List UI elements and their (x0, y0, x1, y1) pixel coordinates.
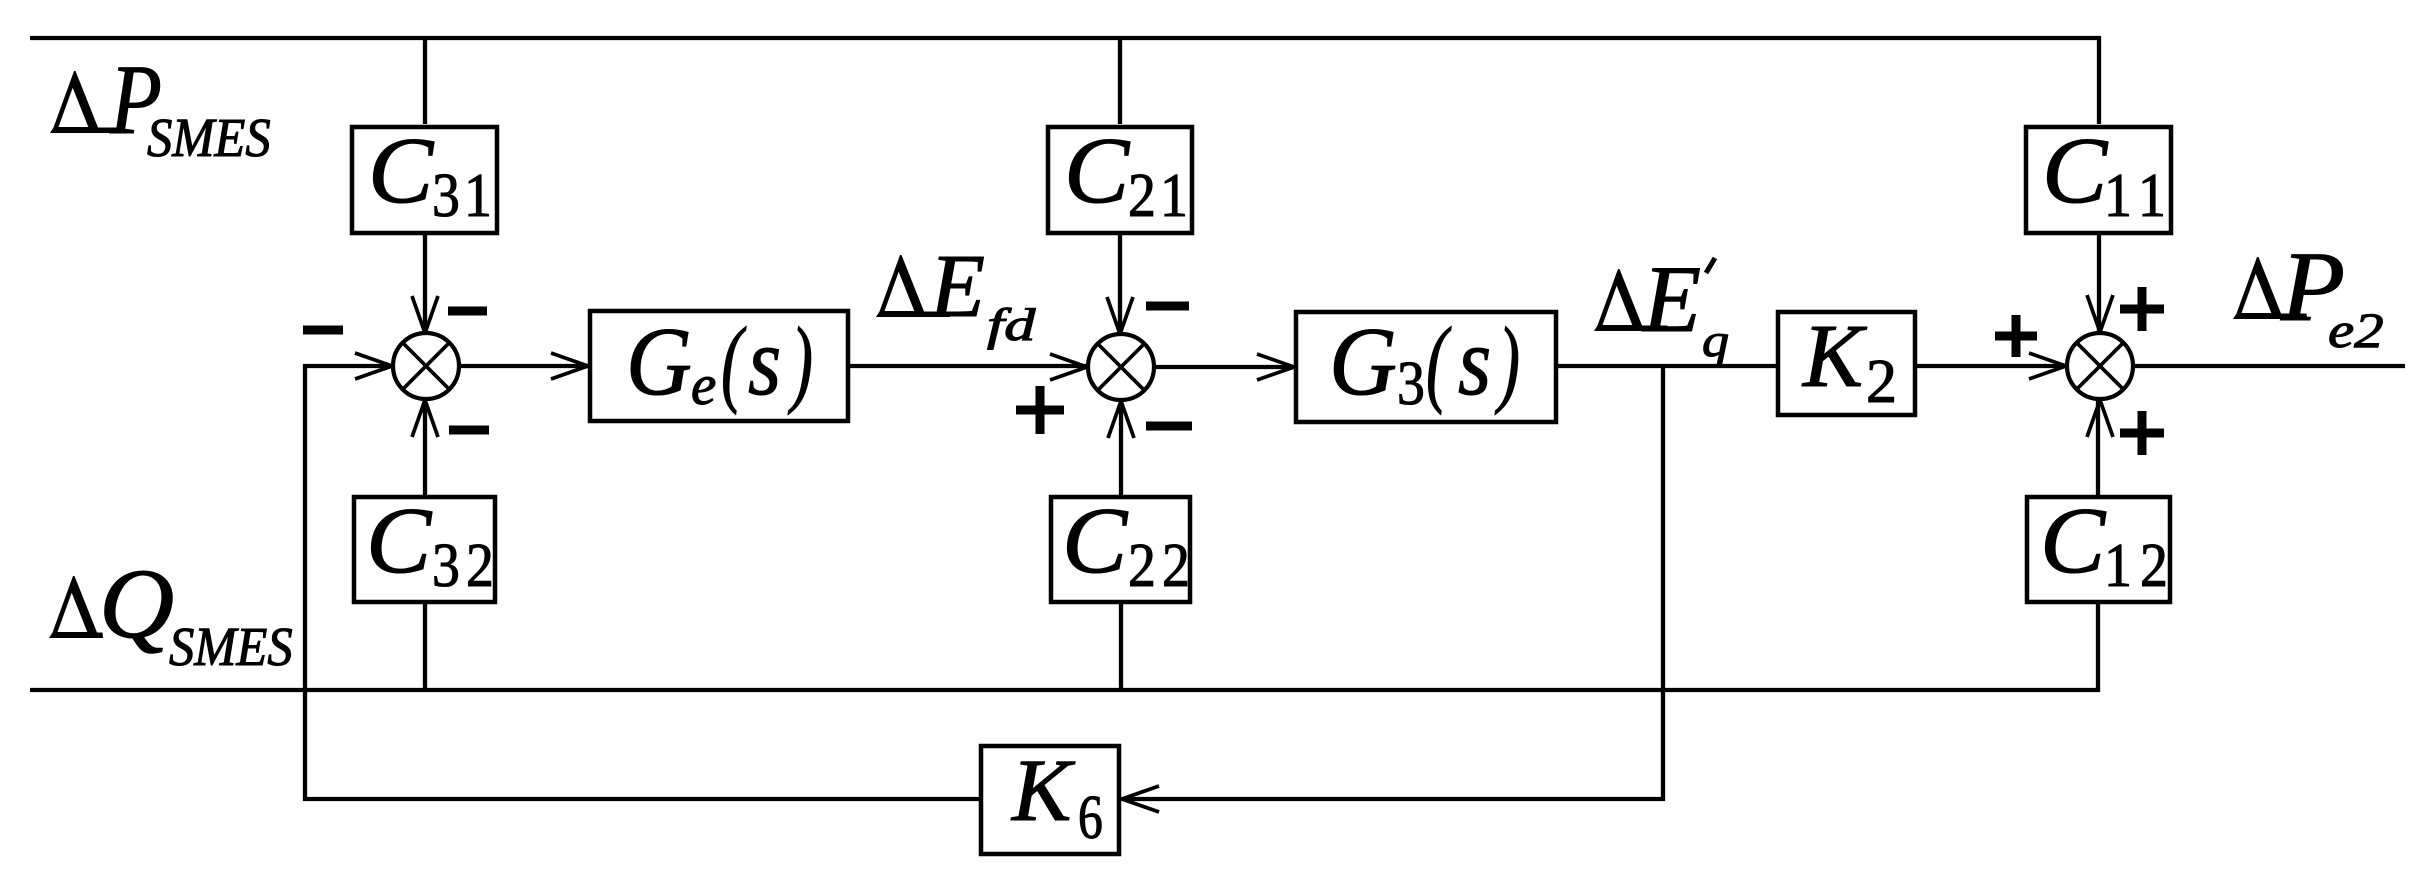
svg-text:SMES: SMES (147, 108, 271, 168)
svg-text:e2: e2 (2328, 302, 2384, 358)
arrowhead down into S3 top (2087, 295, 2113, 332)
svg-text:s: s (748, 308, 781, 415)
wire: C21 to S2 (1118, 233, 1122, 334)
wire: Ge(s) to S2 (dE_fd) (850, 364, 1087, 368)
label dE'_q (1594, 246, 1729, 366)
minus sign lower-right of S1 (449, 426, 489, 435)
block C11 (2026, 119, 2171, 233)
block C32 (354, 489, 495, 602)
block C12 (2027, 489, 2170, 602)
arrowhead right into Ge(s) (551, 353, 588, 379)
svg-text:fd: fd (987, 299, 1036, 350)
svg-text:C: C (2040, 489, 2106, 593)
summing junction S2 (1088, 334, 1154, 400)
plus sign lower-left of S2 (1016, 386, 1064, 434)
svg-text:C: C (1062, 489, 1128, 593)
svg-text:1: 1 (464, 160, 492, 229)
wire: S2 to G3(s) (1155, 365, 1294, 369)
block C21 (1048, 119, 1192, 233)
svg-text:K: K (1801, 307, 1867, 406)
arrowhead right into S1 left (355, 353, 392, 379)
arrowhead left into K6 right edge (1122, 786, 1159, 812)
svg-text:1: 1 (1160, 160, 1188, 229)
prime mark (1706, 258, 1715, 273)
summing junction S3 (2067, 333, 2133, 399)
svg-text:): ) (788, 307, 813, 415)
svg-text:C: C (368, 119, 434, 223)
svg-text:K: K (1010, 742, 1076, 840)
wire: K2 to S3 (1917, 364, 2066, 368)
wire: G3(s) to K2 (1558, 364, 1776, 368)
block Ge(s) (590, 307, 848, 421)
plus sign lower-right of S3 (2120, 411, 2164, 455)
svg-text:2: 2 (1128, 160, 1156, 229)
label dQ_SMES (49, 549, 293, 678)
svg-text:E: E (928, 237, 985, 336)
svg-text:C: C (366, 489, 432, 593)
wire: S1 to Ge(s) (460, 364, 588, 368)
arrowhead up into S3 bottom (2087, 400, 2113, 437)
minus sign left of S1 (303, 326, 343, 335)
svg-text:G: G (1329, 308, 1397, 416)
wire: drop from top bus to C31 (423, 38, 427, 124)
svg-text:3: 3 (432, 160, 460, 229)
svg-text:q: q (1702, 314, 1729, 366)
wire: S3 to dP_e2 output (2134, 364, 2405, 368)
block C31 (352, 119, 497, 233)
wire: dE'q node drop down and left into K6 (1122, 366, 1663, 799)
arrowhead right into S3 left (2029, 353, 2066, 379)
svg-text:SMES: SMES (169, 617, 293, 677)
wire: C31 to summing junction S1 (423, 233, 427, 333)
wire: bottom dQ_SMES bus with corner up to C12 (30, 604, 2098, 690)
wire: S3 bottom input from C12 (2096, 400, 2100, 495)
arrowhead up into S1 bottom (412, 400, 438, 437)
arrowhead down into S1 top (412, 296, 438, 333)
svg-text:2: 2 (1128, 530, 1156, 599)
arrowhead up into S2 bottom (1108, 401, 1134, 438)
svg-text:s: s (1458, 308, 1491, 415)
svg-text:1: 1 (2104, 530, 2132, 599)
svg-text:2: 2 (1866, 348, 1897, 416)
label dE_fd (876, 237, 1036, 350)
wire: C11 to S3 (2097, 233, 2101, 332)
svg-text:(: ( (721, 307, 746, 415)
block K2 (1778, 307, 1915, 416)
wire: top dP_SMES bus with corner down to C11 (30, 38, 2099, 124)
block G3(s) (1296, 307, 1556, 422)
label dP_e2 (2233, 232, 2384, 358)
minus sign upper-right of S1 (448, 307, 487, 316)
wire: drop from top bus to C21 (1118, 38, 1122, 124)
svg-text:1: 1 (2104, 160, 2132, 229)
svg-text:3: 3 (1397, 348, 1425, 417)
svg-text:e: e (691, 354, 716, 417)
wire: S1 bottom input from C32 (423, 400, 427, 495)
wire: C22 down to dQ bus (1119, 604, 1123, 690)
wire: C32 down to dQ bus (423, 604, 427, 690)
plus sign left of S3 (1995, 315, 2037, 357)
svg-text:C: C (2042, 119, 2108, 223)
svg-text:2: 2 (466, 530, 494, 599)
minus sign upper-right of S2 (1146, 302, 1189, 311)
arrowhead down into S2 top (1107, 297, 1133, 334)
svg-text:C: C (1064, 119, 1130, 223)
summing junction S1 (393, 333, 459, 399)
svg-text:2: 2 (2140, 530, 2168, 599)
svg-text:G: G (626, 308, 692, 415)
svg-text:E: E (1641, 246, 1701, 352)
arrowhead right into G3(s) (1257, 354, 1294, 380)
minus sign lower-right of S2 (1146, 422, 1192, 431)
plus sign upper-right of S3 (2120, 287, 2164, 331)
svg-text:6: 6 (1078, 784, 1103, 852)
label dP_SMES (50, 45, 271, 169)
svg-text:(: ( (1426, 307, 1451, 415)
svg-text:2: 2 (1162, 530, 1190, 599)
svg-text:1: 1 (2138, 160, 2166, 229)
wire: S2 bottom input from C22 (1119, 401, 1123, 495)
svg-text:3: 3 (432, 530, 460, 599)
svg-text:): ) (1495, 307, 1520, 415)
svg-text:Q: Q (99, 549, 174, 660)
wire: K6 feedback to S1 left input (305, 366, 979, 799)
block C22 (1051, 489, 1190, 602)
block K6 (981, 742, 1119, 854)
arrowhead right into S2 left (1050, 354, 1087, 380)
